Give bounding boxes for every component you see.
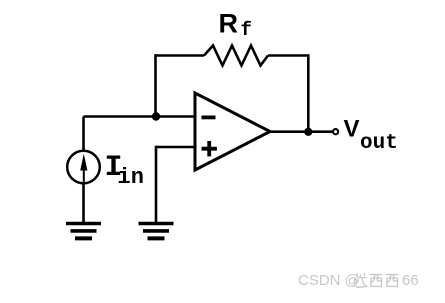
watermark CSDN	[298, 272, 419, 289]
svg-text:66: 66	[402, 272, 419, 289]
wire top right segment	[268, 54, 308, 57]
node junction at output	[304, 128, 312, 136]
node junction at inverting input	[152, 112, 160, 120]
label Vout	[344, 115, 398, 155]
svg-text:f: f	[241, 19, 252, 41]
wire top left segment	[156, 54, 205, 57]
resistor Rf	[204, 46, 268, 66]
current source Iin	[67, 117, 100, 224]
wire feedback right vertical	[307, 54, 310, 132]
svg-text:out: out	[360, 132, 398, 155]
label Rf	[219, 9, 252, 42]
wire output	[270, 130, 333, 133]
wire non-inverting input	[156, 146, 195, 223]
op-amp U1	[195, 93, 270, 170]
ground G2	[139, 224, 174, 239]
output terminal	[333, 129, 338, 134]
svg-text:R: R	[219, 9, 239, 39]
wire feedback left vertical	[154, 54, 157, 116]
ground G1	[66, 224, 101, 239]
svg-text:V: V	[344, 115, 360, 142]
svg-text:in: in	[118, 165, 144, 190]
label Iin	[105, 151, 144, 190]
wire inverting input horizontal	[84, 115, 196, 118]
svg-text:CSDN @: CSDN @	[298, 272, 360, 289]
